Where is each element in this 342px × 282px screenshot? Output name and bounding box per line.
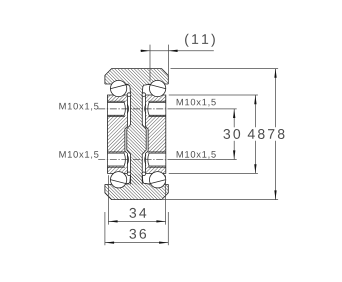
contact line ball top-right (148, 84, 166, 89)
label M10x1,5 upper-left (59, 103, 98, 111)
threaded hole band upper-left (108, 101, 129, 116)
center web edges with bulge (127, 94, 146, 184)
label M10x1,5 lower-right (177, 151, 216, 159)
slot rounded cap bottom-right (142, 172, 146, 176)
dimension 78 (163, 69, 279, 200)
slot rounded cap top-right (142, 93, 146, 97)
hub bushing left (108, 95, 128, 173)
dimension 36 (105, 212, 168, 245)
dimension 34 (108, 175, 165, 224)
ball top-left (110, 80, 126, 96)
centerline upper hole axis (98, 108, 166, 110)
dimension 48 (169, 95, 258, 173)
center web with bulge (fill) (127, 94, 146, 185)
label M10x1,5 upper-right (177, 99, 216, 107)
hub bushing right (145, 95, 165, 173)
outer ring bottom band outline (105, 174, 168, 200)
outer ring top band with center wedge (fill) (105, 69, 168, 95)
threaded hole band lower-right (145, 152, 166, 167)
contact line ball top-left (110, 84, 128, 89)
slot rounded cap top-left (127, 93, 131, 97)
centerline lower hole axis (98, 159, 166, 161)
contact line ball bottom-left (110, 180, 128, 185)
dimension 30 (233, 109, 235, 160)
contact line ball bottom-right (148, 180, 166, 185)
ball top-right (149, 80, 165, 96)
slot rounded cap bottom-left (127, 172, 131, 176)
threaded hole band upper-right (145, 101, 166, 116)
label M10x1,5 lower-left (59, 151, 98, 159)
ball bottom-right (149, 172, 165, 188)
dimension (11) (140, 45, 213, 81)
outer ring bottom band with center wedge (fill) (105, 174, 168, 200)
outer ring top band outline (105, 69, 168, 95)
ball bottom-left (110, 172, 126, 188)
threaded hole band lower-left (108, 152, 129, 167)
